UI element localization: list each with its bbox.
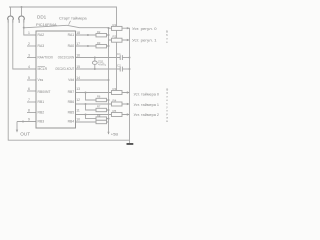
capacitor C1 plates bbox=[120, 55, 122, 60]
arrow output row B bbox=[127, 39, 130, 41]
svg-text:16: 16 bbox=[76, 54, 80, 58]
resistor R2 bbox=[112, 38, 123, 42]
svg-text:Старт таймера: Старт таймера bbox=[59, 16, 87, 21]
svg-text:Vss: Vss bbox=[38, 78, 44, 82]
resistor R1 bbox=[112, 26, 123, 30]
arrow +5V rail end bbox=[107, 132, 109, 135]
svg-text:R5: R5 bbox=[113, 109, 117, 113]
svg-text:Уст. регул. 1: Уст. регул. 1 bbox=[132, 39, 157, 43]
pin name labels inside box bbox=[38, 33, 75, 124]
svg-text:RB2: RB2 bbox=[38, 111, 45, 115]
svg-text:C2: C2 bbox=[117, 63, 121, 67]
ground symbol bbox=[127, 143, 134, 145]
svg-text:R2: R2 bbox=[113, 35, 117, 39]
svg-text:4: 4 bbox=[28, 65, 30, 69]
wire output row A through R1 bbox=[109, 27, 130, 29]
component value labels bbox=[98, 23, 121, 113]
wire SB1 right leg to MCLR pin 4 bbox=[13, 19, 36, 69]
wire RB6 pin 12 row to output bbox=[76, 103, 130, 105]
svg-text:DD1: DD1 bbox=[37, 15, 47, 20]
wire switch to node A bbox=[80, 27, 109, 29]
wire RB5 pullup branch bbox=[86, 115, 97, 119]
svg-text:Vdd: Vdd bbox=[68, 78, 74, 82]
wire RA0 pin 17 row bbox=[76, 45, 109, 47]
wire OSC2 pin 15 row bbox=[76, 68, 121, 70]
svg-text:OUT: OUT bbox=[20, 131, 30, 136]
wire SB2 stem bbox=[21, 7, 23, 16]
svg-text:RB1: RB1 bbox=[38, 100, 45, 104]
wire RB6 pullup branch bbox=[86, 104, 97, 110]
wire RB5 pin 11 row to output bbox=[76, 114, 130, 116]
wire RB7 pullup branch bbox=[86, 93, 97, 101]
wire ground rail right bbox=[129, 28, 131, 143]
svg-text:RA3: RA3 bbox=[38, 44, 45, 48]
wire RB7 pin 13 row to output bbox=[76, 92, 130, 94]
wire OSC1 pin 16 row bbox=[76, 57, 121, 59]
wire output row B through R2 bbox=[109, 39, 130, 41]
svg-text:RA4/T0CKI: RA4/T0CKI bbox=[38, 56, 54, 60]
svg-text:6: 6 bbox=[28, 87, 30, 91]
arrow output row A bbox=[127, 27, 130, 29]
svg-text:RA0: RA0 bbox=[68, 44, 75, 48]
svg-text:9: 9 bbox=[28, 118, 30, 122]
switch SA1 blade bbox=[67, 25, 80, 27]
svg-text:12: 12 bbox=[76, 98, 80, 102]
wire quartz vertical bbox=[94, 58, 96, 62]
resistor R5 bbox=[112, 113, 123, 117]
wire SB1 stem bbox=[10, 7, 12, 16]
svg-text:RB7: RB7 bbox=[68, 90, 75, 94]
svg-text:7: 7 bbox=[28, 98, 30, 102]
svg-text:RB5: RB5 bbox=[68, 111, 75, 115]
svg-text:OSC2/CLKOUT: OSC2/CLKOUT bbox=[55, 67, 74, 71]
svg-text:18: 18 bbox=[76, 31, 80, 35]
resistor pullup RA1 bbox=[96, 34, 107, 37]
wire RB4 pin 10 row with inline pullup bbox=[76, 121, 109, 123]
arrow OUT bbox=[16, 130, 18, 133]
wire OSC1 cap to ground rail bbox=[122, 57, 129, 59]
wire top +5V rail bbox=[9, 7, 117, 91]
svg-text:Уст. таймера 0: Уст. таймера 0 bbox=[134, 92, 160, 96]
svg-text:2: 2 bbox=[28, 42, 30, 46]
resistor R3 bbox=[112, 91, 123, 95]
wire SB2 left leg bbox=[18, 19, 20, 23]
quartz ZQ1 body bbox=[92, 61, 97, 64]
svg-text:R3: R3 bbox=[97, 41, 101, 45]
svg-text:8: 8 bbox=[28, 109, 30, 113]
svg-text:17: 17 bbox=[76, 42, 80, 46]
svg-text:3: 3 bbox=[28, 54, 30, 58]
svg-text:14: 14 bbox=[76, 76, 80, 80]
svg-text:R6: R6 bbox=[97, 95, 101, 99]
arrowheads bbox=[16, 27, 130, 135]
pin numbers bbox=[28, 31, 80, 122]
resistor pullup RA0 bbox=[96, 45, 107, 48]
capacitor C2 plates bbox=[120, 67, 122, 72]
wire RB3 pin 9 row and OUT jog bbox=[17, 122, 36, 131]
svg-text:R2: R2 bbox=[97, 30, 101, 34]
svg-text:R8: R8 bbox=[97, 113, 101, 117]
svg-text:R1: R1 bbox=[113, 23, 117, 27]
arrow output timer 2 bbox=[127, 113, 130, 115]
svg-text:RA2: RA2 bbox=[38, 33, 45, 37]
svg-text:10: 10 bbox=[76, 118, 80, 122]
wire switch line start timer bbox=[24, 25, 67, 28]
svg-text:Уст. регул. 0: Уст. регул. 0 bbox=[132, 27, 157, 31]
resistor pullup RB5 bbox=[96, 117, 107, 120]
svg-text:4 МГц: 4 МГц bbox=[98, 63, 106, 67]
resistor pullup RB4 bbox=[96, 120, 107, 123]
svg-text:RB0/INT: RB0/INT bbox=[38, 90, 51, 94]
pullup designator labels bbox=[97, 30, 101, 117]
button SB2 bbox=[19, 16, 25, 20]
wire Vdd pin 14 row bbox=[76, 79, 109, 81]
resistor pullup RB6 bbox=[96, 108, 107, 111]
wire RA1 pin 18 row bbox=[76, 34, 109, 36]
svg-text:RB6: RB6 bbox=[68, 100, 75, 104]
switch arrow tick bbox=[69, 21, 71, 25]
resistor R4 bbox=[112, 102, 123, 106]
svg-text:+5В: +5В bbox=[111, 131, 119, 136]
arrow output timer 1 bbox=[127, 103, 130, 105]
wire OSC2 cap to ground rail bbox=[122, 68, 129, 70]
svg-text:15: 15 bbox=[76, 65, 80, 69]
MCLR overline bbox=[38, 66, 46, 68]
vertical margin text right bottom bbox=[166, 88, 168, 124]
output labels bbox=[132, 27, 159, 117]
svg-text:Уст. таймера 2: Уст. таймера 2 bbox=[134, 113, 160, 117]
svg-text:MCLR: MCLR bbox=[38, 67, 48, 71]
svg-text:1: 1 bbox=[28, 31, 30, 35]
arrow output timer 0 bbox=[127, 91, 130, 93]
svg-text:R3: R3 bbox=[113, 87, 117, 91]
wire vertical rail +5V pullup bus bbox=[108, 28, 110, 134]
resistor pullup RB7 bbox=[96, 98, 107, 101]
svg-text:C1: C1 bbox=[117, 52, 121, 56]
svg-text:RB3: RB3 bbox=[38, 120, 45, 124]
svg-text:PIC16F84A: PIC16F84A bbox=[36, 22, 57, 27]
svg-text:13: 13 bbox=[76, 87, 80, 91]
IC DD1 box bbox=[36, 31, 76, 128]
svg-text:R4: R4 bbox=[113, 98, 117, 102]
svg-text:RB4: RB4 bbox=[68, 120, 75, 124]
svg-text:11: 11 bbox=[76, 109, 80, 113]
wire SB1 left leg to bottom common bbox=[8, 19, 129, 140]
button SB1 bbox=[8, 16, 14, 20]
junction dots bbox=[21, 6, 131, 123]
svg-text:RA1: RA1 bbox=[68, 33, 75, 37]
svg-text:OSC1/CLKIN: OSC1/CLKIN bbox=[58, 56, 75, 60]
svg-text:R7: R7 bbox=[97, 105, 101, 109]
wire riser RA0 to output row B bbox=[108, 40, 110, 46]
wire SB2 right leg to RA2 pin 1 bbox=[24, 19, 36, 35]
vertical margin text right top bbox=[166, 30, 168, 45]
svg-text:Уст. таймера 1: Уст. таймера 1 bbox=[134, 103, 160, 107]
svg-text:5: 5 bbox=[28, 76, 30, 80]
left pin stubs 1-9 bbox=[27, 45, 36, 47]
